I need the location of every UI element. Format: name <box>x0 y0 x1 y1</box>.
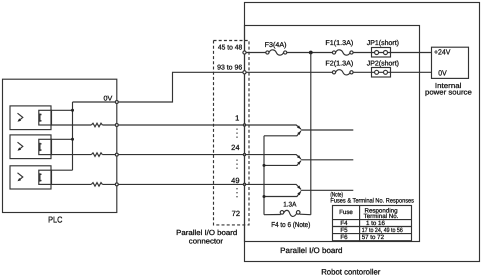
svg-text:72: 72 <box>232 209 240 218</box>
transistor driver Q1 <box>245 125 301 129</box>
opto-isolator unit 3 transistor box <box>39 170 52 184</box>
svg-text:F1(1.3A): F1(1.3A) <box>325 39 353 47</box>
svg-text:49: 49 <box>231 176 239 185</box>
internal power source box +24V/0V <box>432 47 469 78</box>
terminal circle 93-96 at controller edge <box>243 71 246 74</box>
svg-text:24: 24 <box>231 143 239 152</box>
svg-text:power source: power source <box>425 87 472 96</box>
svg-text:F3(4A): F3(4A) <box>265 41 287 49</box>
fuse F3 <box>266 51 269 54</box>
jumper JP1 <box>372 48 391 58</box>
terminal circle line1 at PLC edge <box>115 124 118 127</box>
junction dot unit1/0V bus <box>71 109 74 112</box>
wire: +24V feed line y=52.5 <box>245 52 432 54</box>
wire: Q2 output <box>301 159 354 161</box>
wire: 0V from PLC to step up to connector line 93-96 <box>117 72 245 102</box>
terminal circle 45-48 at controller edge <box>243 51 246 54</box>
svg-text:1: 1 <box>235 114 239 123</box>
wire: 0V vertical bus in PLC <box>72 102 74 170</box>
svg-text:F4: F4 <box>340 220 348 227</box>
wire: driver common bus <box>263 136 265 215</box>
wire: unit2 collector lead to 0V bus <box>52 138 73 140</box>
svg-text:Robot contoroller: Robot contoroller <box>321 267 381 276</box>
svg-text:Fuses & Terminal No. Responses: Fuses & Terminal No. Responses <box>330 198 414 205</box>
svg-text:45 to 48: 45 to 48 <box>218 45 242 52</box>
junction dot F3/F1 node <box>309 51 313 55</box>
svg-text:Fuse: Fuse <box>339 209 353 216</box>
dotted pin line 24-49 <box>236 160 238 170</box>
wire: signal line 1 (pin 1) <box>52 124 245 126</box>
note table <box>333 206 412 241</box>
terminal circle line3 at PLC edge <box>115 183 118 186</box>
Parallel I/O board box <box>245 26 420 242</box>
opto-isolator unit 2 LED chevron <box>18 142 23 150</box>
resistor R1 <box>91 123 102 127</box>
wire: signal line 2 (pin 24) <box>52 154 245 156</box>
svg-text:Parallel I/O board: Parallel I/O board <box>280 246 342 255</box>
svg-text:57 to 72: 57 to 72 <box>362 234 385 241</box>
junction dot Q2 bus <box>263 164 266 167</box>
wire: 0V line y=72.3 <box>245 71 432 73</box>
parallel I/O board connector (dashed box) <box>214 41 250 225</box>
transistor driver Q2 <box>245 155 301 159</box>
terminal circle line2 at controller edge <box>243 153 245 155</box>
svg-text:JP2(short): JP2(short) <box>367 60 399 68</box>
opto-isolator unit 2 outer box <box>10 135 51 159</box>
PLC enclosure box <box>3 79 117 212</box>
wire: signal line 3 (pin 49) <box>52 183 245 185</box>
opto-isolator unit 1 transistor box <box>39 110 52 125</box>
opto-isolator unit 3 outer box <box>10 166 51 189</box>
svg-text:F6: F6 <box>340 234 348 241</box>
terminal circle line3 at controller edge <box>243 183 245 185</box>
svg-text:1 to 16: 1 to 16 <box>366 220 385 227</box>
svg-text:JP1(short): JP1(short) <box>367 39 399 47</box>
opto-isolator unit 1 LED chevron <box>18 113 23 121</box>
fuse F4-F6 1.3A <box>280 211 284 215</box>
terminal circle line1 at controller edge <box>243 124 245 126</box>
junction dot unit2/0V bus <box>71 138 74 141</box>
robot controller enclosure box <box>245 3 480 262</box>
opto-isolator unit 2 transistor box <box>39 139 52 154</box>
dotted pin line 49-72 <box>236 188 238 200</box>
junction dot Q3 bus <box>263 195 266 198</box>
terminal circle 0V at PLC edge <box>115 101 118 104</box>
terminal circle line2 at PLC edge <box>115 153 118 156</box>
svg-text:F4 to 6 (Note): F4 to 6 (Note) <box>271 220 310 229</box>
transistor driver Q3 <box>245 184 301 189</box>
svg-text:0V: 0V <box>438 68 446 77</box>
svg-text:connector: connector <box>189 236 224 245</box>
wire: bottom fuse connections <box>264 213 311 216</box>
fuse F1 <box>332 51 335 54</box>
resistor R3 <box>91 183 102 187</box>
svg-text:0V: 0V <box>104 96 113 103</box>
resistor R2 <box>91 153 102 157</box>
opto-isolator unit 1 outer box <box>10 106 51 130</box>
svg-text:93 to 96: 93 to 96 <box>217 65 242 72</box>
jumper JP2 <box>372 68 391 78</box>
svg-text:1.3A: 1.3A <box>283 201 297 208</box>
fuse F2 <box>332 71 335 74</box>
svg-text:+24V: +24V <box>434 47 450 56</box>
dotted pin line 1-24 <box>236 129 238 141</box>
wire: unit1 collector lead to 0V bus <box>52 109 73 111</box>
svg-text:PLC: PLC <box>48 215 62 225</box>
wire: Q1 output <box>301 129 354 131</box>
svg-text:F2(1.3A): F2(1.3A) <box>325 60 353 68</box>
wire: Q3 output <box>301 189 354 191</box>
wire: 0V bus inside PLC <box>73 101 117 103</box>
wire: vertical bus from F3 node down to bottom fuse <box>310 53 312 215</box>
wire: unit3 collector lead to 0V bus <box>52 169 73 171</box>
opto-isolator unit 3 LED chevron <box>18 173 23 181</box>
